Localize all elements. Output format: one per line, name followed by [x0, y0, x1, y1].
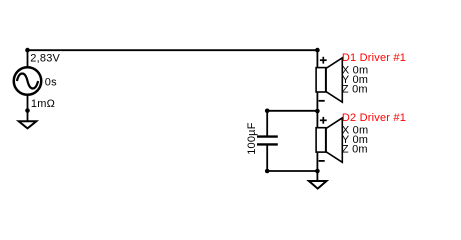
ground right [309, 181, 327, 189]
wire right rail upper [316, 50, 318, 68]
capacitor C1 [257, 111, 278, 171]
wire top horizontal [28, 49, 318, 51]
svg-text:100µF: 100µF [246, 122, 258, 154]
speaker D1 [316, 58, 342, 102]
svg-text:Z 0m: Z 0m [342, 144, 368, 156]
wire capacitor top horizontal [267, 110, 317, 112]
wire source top lead [27, 50, 29, 68]
node junction top-left [25, 48, 30, 53]
node junction capacitor bottom [265, 169, 270, 174]
pin plus D1 [320, 57, 327, 64]
svg-text:2,83V: 2,83V [30, 52, 60, 64]
node junction source-ground [25, 108, 30, 113]
ground left [19, 121, 37, 128]
svg-text:Z 0m: Z 0m [342, 84, 368, 96]
pin plus D2 [320, 117, 327, 124]
wire right rail lower [316, 153, 318, 181]
svg-text:0s: 0s [45, 76, 57, 88]
wire bottom horizontal [267, 170, 317, 172]
svg-text:1mΩ: 1mΩ [31, 98, 55, 110]
node junction drivers mid [315, 109, 320, 114]
node junction top-right [315, 48, 320, 53]
speaker D2 [316, 118, 342, 162]
wire right rail middle [316, 93, 318, 128]
pin minus D2 [319, 160, 325, 162]
pin minus D1 [319, 100, 325, 102]
node junction capacitor top [265, 109, 270, 114]
node junction bottom-right [315, 169, 320, 174]
voltage source V1 [14, 67, 42, 95]
svg-text:D2 Driver #1: D2 Driver #1 [342, 112, 406, 124]
wire source bottom lead [27, 94, 29, 122]
svg-text:D1 Driver #1: D1 Driver #1 [342, 52, 406, 64]
